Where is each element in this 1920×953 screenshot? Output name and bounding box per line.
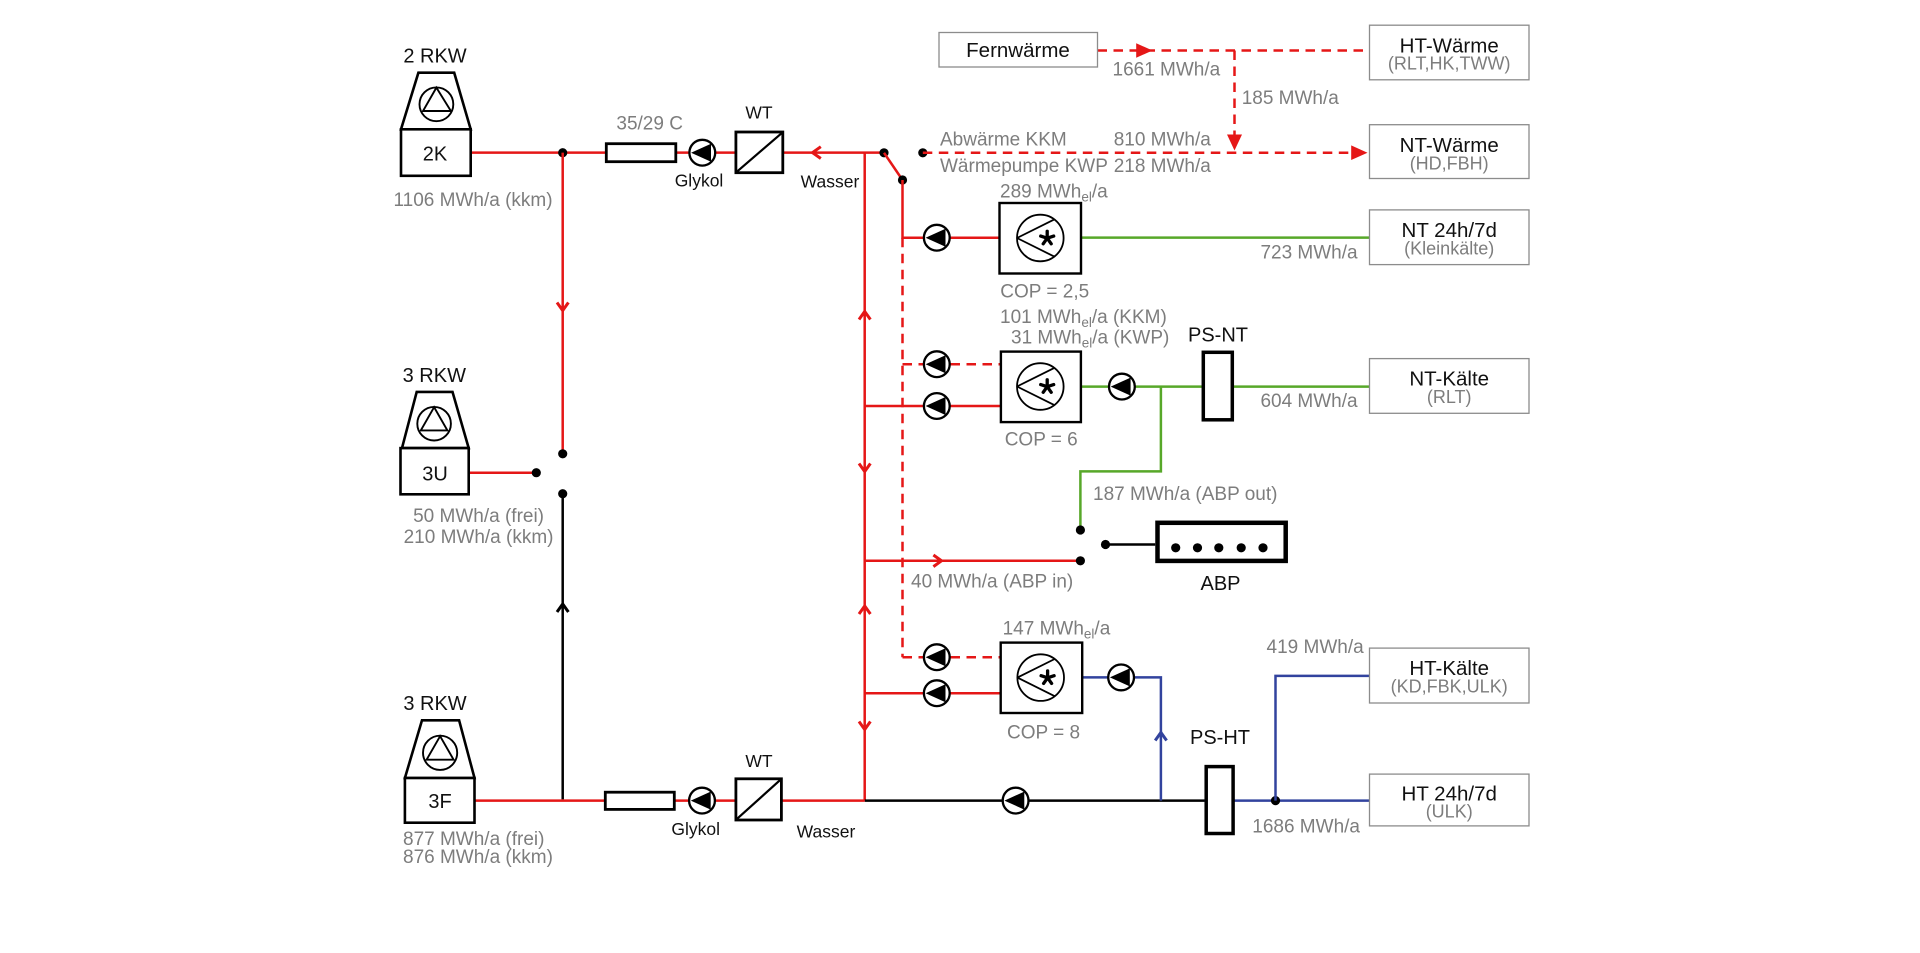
- svg-text:1661 MWh/a: 1661 MWh/a: [1113, 60, 1221, 81]
- svg-text:185 MWh/a: 185 MWh/a: [1242, 88, 1340, 109]
- svg-text:COP = 6: COP = 6: [1005, 430, 1078, 451]
- label 604 MWh/a: [1260, 391, 1358, 412]
- label 419 MWh/a: [1267, 637, 1365, 658]
- source box Fernwaerme: [939, 33, 1098, 68]
- pump chiller3 solid inlet: [924, 680, 950, 706]
- cooling tower 2K: [401, 73, 471, 176]
- label Wasser bottom: [797, 822, 856, 842]
- resistor 35/29 C (glycol cooler top): [606, 144, 676, 162]
- label 185 MWh/a: [1242, 88, 1340, 109]
- svg-text:289 MWhel/a: 289 MWhel/a: [1000, 182, 1108, 205]
- wire ABP in (red): [865, 560, 1081, 563]
- heat exchanger WT bottom: [736, 779, 782, 820]
- flow arrow down on riser (second segment): [859, 464, 870, 472]
- load box NT-Waerme: [1370, 125, 1530, 179]
- pump bottom main line: [1003, 788, 1029, 814]
- pump P-glycol top: [689, 140, 715, 166]
- pump P-glycol bottom: [689, 788, 715, 814]
- node dot end of 3U stub: [532, 468, 541, 477]
- svg-text:3U: 3U: [422, 464, 448, 486]
- label Glykol bottom: [671, 819, 720, 839]
- label 1106 MWh/a (kkm): [394, 190, 553, 211]
- arrowhead down on 185 MWh drop: [1227, 135, 1242, 151]
- label 210 MWh/a (kkm): [404, 527, 554, 548]
- svg-text:419 MWh/a: 419 MWh/a: [1267, 637, 1365, 658]
- label 50 MWh/a (frei): [413, 506, 544, 527]
- svg-text:Abwärme KKM: Abwärme KKM: [940, 130, 1067, 151]
- svg-text:(ULK): (ULK): [1426, 802, 1473, 822]
- label 723 MWh/a: [1260, 243, 1358, 264]
- label 3 RKW (middle): [403, 365, 466, 387]
- load box NT-Kaelte: [1370, 359, 1530, 414]
- label 218 MWh/a: [1114, 156, 1212, 177]
- pump blue after chiller3: [1108, 665, 1134, 691]
- svg-text:187 MWh/a (ABP out): 187 MWh/a (ABP out): [1093, 484, 1277, 505]
- svg-text:604 MWh/a: 604 MWh/a: [1260, 391, 1358, 412]
- svg-text:218 MWh/a: 218 MWh/a: [1114, 156, 1212, 177]
- flow arrow left on water line near WT: [813, 147, 821, 159]
- wire dashed riser (red, x=902.5): [901, 238, 904, 658]
- svg-text:WT: WT: [745, 751, 773, 771]
- node dot start of Abwaerme dashed line: [918, 148, 927, 157]
- svg-text:Wasser: Wasser: [801, 172, 860, 192]
- pump green after chiller2: [1109, 374, 1135, 400]
- node junction dot on 2K line: [558, 148, 567, 157]
- buffer tank PS-NT: [1203, 352, 1232, 420]
- load box HT 24h/7d: [1370, 774, 1530, 826]
- pump chiller2 solid inlet: [924, 393, 950, 419]
- wire chiller2 dashed feed: [903, 363, 1001, 366]
- label 147 MWh el/a: [1003, 619, 1111, 642]
- chiller U1 KKM (COP 2,5): [1000, 203, 1082, 274]
- wire chiller2 solid feed: [865, 405, 1001, 408]
- svg-text:(KD,FBK,ULK): (KD,FBK,ULK): [1391, 677, 1508, 697]
- svg-text:(HD,FBH): (HD,FBH): [1410, 153, 1489, 173]
- wire green chiller1 to NT 24h/7d: [1081, 236, 1370, 239]
- node dot water line end: [879, 148, 888, 157]
- label COP = 8: [1007, 722, 1080, 743]
- node dot end of left branch: [558, 449, 567, 458]
- arrowhead on NT-Waerme line: [1351, 145, 1367, 160]
- node dot ABP out end: [1076, 525, 1085, 534]
- label PS-NT: [1188, 325, 1248, 347]
- svg-text:723 MWh/a: 723 MWh/a: [1260, 243, 1358, 264]
- svg-text:Fernwärme: Fernwärme: [966, 39, 1070, 62]
- svg-text:PS-NT: PS-NT: [1188, 325, 1248, 347]
- svg-text:35/29 C: 35/29 C: [616, 114, 683, 135]
- node dot start of black branch: [558, 489, 567, 498]
- wire black branch vertical to bottom line: [561, 494, 564, 800]
- svg-text:COP = 8: COP = 8: [1007, 722, 1080, 743]
- svg-text:ABP: ABP: [1200, 573, 1240, 595]
- adsorption unit ABP: [1158, 523, 1286, 561]
- label 35/29 C: [616, 114, 683, 135]
- label WT bottom: [745, 751, 773, 771]
- chiller U2 KKM/KWP (COP 6): [1001, 352, 1081, 423]
- flow arrow right on ABP in: [933, 555, 941, 567]
- wire bottom supply (red) 3F to riser: [475, 799, 865, 802]
- label 101 MWh el/a (KKM): [1000, 307, 1167, 330]
- cooling tower 3F: [405, 720, 475, 822]
- label ABP: [1200, 573, 1240, 595]
- wire blue PS-HT to HT 24h/7d: [1204, 799, 1369, 802]
- svg-text:810 MWh/a: 810 MWh/a: [1114, 130, 1212, 151]
- wire ABP connector (black): [1106, 543, 1156, 546]
- svg-text:50 MWh/a (frei): 50 MWh/a (frei): [413, 506, 544, 527]
- label 40 MWh/a (ABP in): [911, 572, 1073, 593]
- wire dashed Fernwaerme to HT-Waerme: [1098, 49, 1370, 52]
- label 810 MWh/a: [1114, 130, 1212, 151]
- svg-text:1106 MWh/a (kkm): 1106 MWh/a (kkm): [394, 190, 553, 211]
- label Glykol top: [675, 171, 724, 191]
- resistor glycol cooler bottom: [605, 792, 674, 809]
- wire chiller3 dashed feed: [903, 656, 1001, 659]
- label 187 MWh/a (ABP out): [1093, 484, 1277, 505]
- label 876 MWh/a (kkm): [403, 847, 553, 868]
- svg-text:Glykol: Glykol: [675, 171, 724, 191]
- svg-text:1686 MWh/a: 1686 MWh/a: [1252, 817, 1360, 838]
- svg-text:(Kleinkälte): (Kleinkälte): [1404, 239, 1494, 259]
- svg-text:(RLT): (RLT): [1427, 387, 1472, 407]
- wire 2K to WT glycol loop (red, y=152.6): [471, 151, 884, 154]
- wire green ABP out branch: [1080, 387, 1161, 530]
- svg-text:876 MWh/a (kkm): 876 MWh/a (kkm): [403, 847, 553, 868]
- node dot ABP connector: [1101, 540, 1110, 549]
- wire black bottom main line: [865, 799, 1235, 802]
- wire dashed Abwaerme to NT-Waerme: [923, 151, 1352, 154]
- chiller U3 (COP 8): [1001, 643, 1082, 713]
- node dot on blue line: [1271, 796, 1280, 805]
- wire main riser (red, x=864.7): [863, 153, 866, 801]
- flow arrow down on riser (bottom segment): [859, 722, 870, 730]
- label Abwaerme KKM: [940, 130, 1067, 151]
- label 3 RKW (bottom): [403, 693, 466, 715]
- load box HT-Waerme: [1370, 25, 1530, 80]
- label 877 MWh/a (frei): [403, 829, 544, 850]
- label 2 RKW: [403, 46, 466, 68]
- pump chiller1 inlet: [924, 225, 950, 251]
- node switch dot: [898, 175, 907, 184]
- flow arrow down on left branch: [557, 303, 568, 311]
- cooling tower 3U: [401, 392, 469, 494]
- svg-text:COP = 2,5: COP = 2,5: [1000, 282, 1089, 303]
- arrowhead on Fernwaerme line: [1136, 43, 1152, 58]
- label WT top: [745, 103, 773, 123]
- wire blue chiller3 output: [1082, 677, 1161, 800]
- label 1686 MWh/a: [1252, 817, 1360, 838]
- wire chiller1 feed (red solid, from switch down and right): [903, 180, 1000, 238]
- wire switch diagonal: [884, 153, 903, 180]
- svg-text:(RLT,HK,TWW): (RLT,HK,TWW): [1388, 54, 1511, 74]
- svg-text:210 MWh/a (kkm): 210 MWh/a (kkm): [404, 527, 554, 548]
- node dot ABP in end: [1076, 556, 1085, 565]
- label Waermepumpe KWP: [940, 156, 1108, 177]
- flow arrow up on blue drop: [1155, 733, 1166, 741]
- svg-text:Wasser: Wasser: [797, 822, 856, 842]
- label COP = 6: [1005, 430, 1078, 451]
- svg-text:PS-HT: PS-HT: [1190, 727, 1250, 749]
- pump chiller2 dashed inlet: [924, 351, 950, 377]
- label Wasser top: [801, 172, 860, 192]
- wire left branch vertical (red, x=562.7): [561, 153, 564, 454]
- label 31 MWh el/a (KWP): [1011, 327, 1169, 350]
- wire green chiller2 to NT-Kaelte through PS-NT: [1081, 385, 1370, 388]
- flow arrow up on riser (top segment): [859, 312, 870, 320]
- pump chiller3 dashed inlet: [924, 644, 950, 670]
- svg-text:Glykol: Glykol: [671, 819, 720, 839]
- buffer tank PS-HT: [1206, 767, 1233, 834]
- label COP = 2,5: [1000, 282, 1089, 303]
- svg-text:40 MWh/a (ABP in): 40 MWh/a (ABP in): [911, 572, 1073, 593]
- wire chiller3 solid feed: [865, 692, 1001, 695]
- label 1661 MWh/a: [1113, 60, 1221, 81]
- svg-text:WT: WT: [745, 103, 773, 123]
- svg-text:Wärmepumpe KWP: Wärmepumpe KWP: [940, 156, 1108, 177]
- flow arrow up on riser (third segment): [859, 606, 870, 614]
- wire 3U stub (red): [469, 471, 537, 474]
- svg-text:3 RKW: 3 RKW: [403, 365, 466, 387]
- wire dashed drop 185 MWh: [1233, 51, 1236, 137]
- heat exchanger WT top: [736, 132, 783, 173]
- svg-text:3 RKW: 3 RKW: [403, 693, 466, 715]
- svg-text:147 MWhel/a: 147 MWhel/a: [1003, 619, 1111, 642]
- wire blue riser to HT-Kaelte: [1276, 676, 1370, 801]
- load box NT 24h/7d: [1370, 210, 1530, 265]
- svg-text:2 RKW: 2 RKW: [403, 46, 466, 68]
- label 289 MWh el/a: [1000, 182, 1108, 205]
- load box HT-Kaelte: [1370, 648, 1530, 703]
- svg-text:2K: 2K: [423, 144, 448, 166]
- label PS-HT: [1190, 727, 1250, 749]
- flow arrow up on black branch: [557, 604, 568, 612]
- svg-text:3F: 3F: [428, 791, 451, 813]
